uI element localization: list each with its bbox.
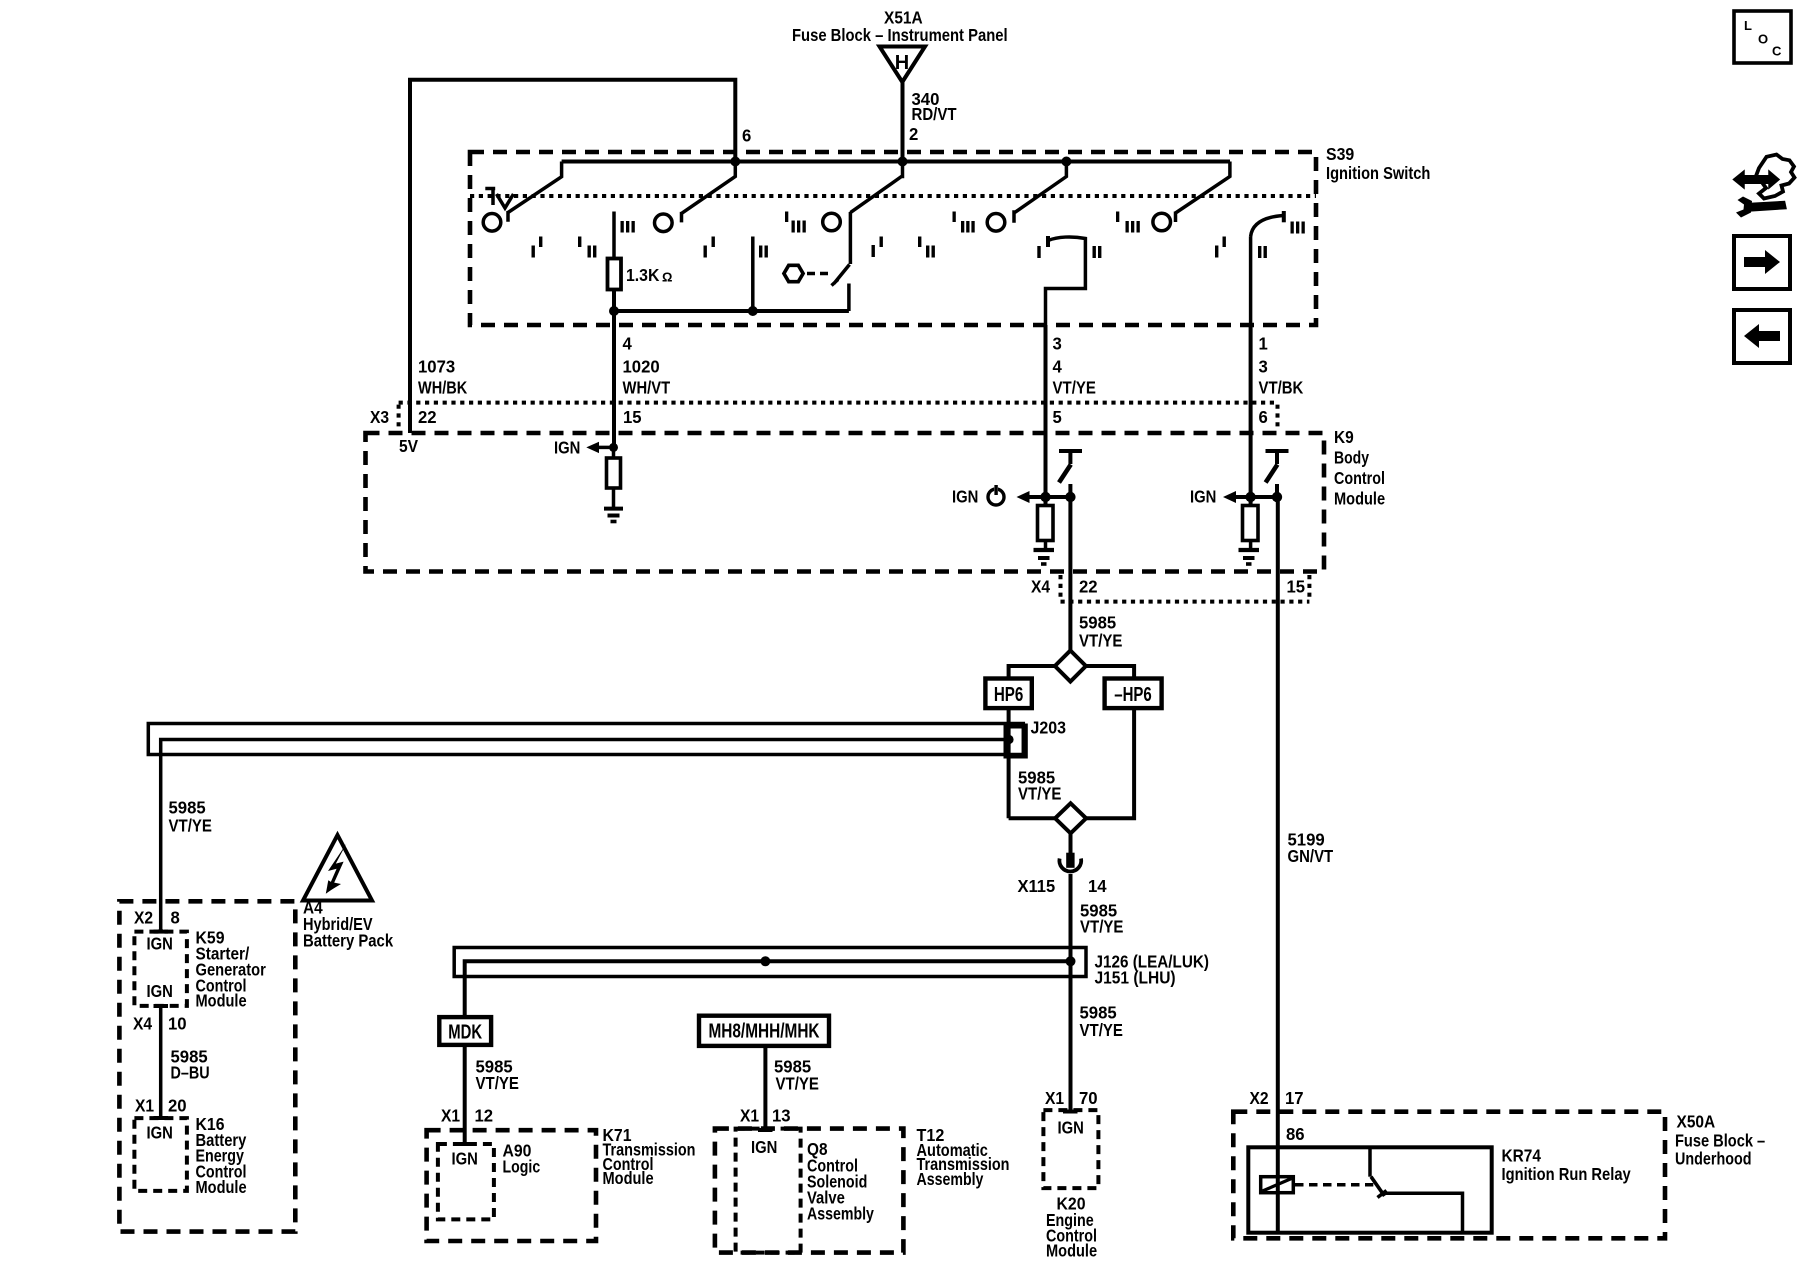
svg-text:X1: X1 [135,1096,154,1116]
svg-text:Module: Module [1046,1241,1097,1261]
svg-text:MH8/MHH/MHK: MH8/MHH/MHK [708,1021,820,1043]
node IGN right junction2 [1272,492,1282,502]
label T12 Automatic Transmission Assembly [917,1125,1010,1189]
dashed link hexagon to blade [807,272,833,276]
svg-text:Assembly: Assembly [807,1204,874,1224]
S39 inner dotted detent line [470,194,1316,198]
svg-text:L: L [1744,18,1752,33]
svg-text:5: 5 [1053,407,1063,427]
ground BCM left [604,488,623,522]
svg-text:–HP6: –HP6 [1114,684,1152,706]
node run-junction1 [1040,492,1050,502]
wire BCM out left (to X4 22) [1068,497,1072,651]
svg-text:IGN: IGN [952,487,978,507]
svg-text:1073: 1073 [418,357,455,377]
svg-text:IGN: IGN [147,1123,173,1143]
wafer6 mark III [1291,222,1305,234]
svg-text:X2: X2 [1250,1088,1269,1108]
wire X115 to J126 bus [1069,874,1073,961]
wafer2 contact circle [655,214,673,232]
wire 4 VT/YE (S39 pin 3 to BCM 5) [1044,325,1048,497]
svg-text:Body: Body [1334,448,1369,468]
ground BCM right [1239,541,1260,565]
resistor BCM right [1243,497,1259,541]
svg-text:X2: X2 [134,908,153,928]
label wire 5985 VT/YE (K20 leg) [1080,1003,1123,1041]
wafer4 mark I [1037,246,1040,258]
svg-text:Ignition Switch: Ignition Switch [1326,163,1430,183]
wafer5 contact circle [1153,213,1171,231]
fuse block X51A label [792,8,1008,46]
svg-text:70: 70 [1079,1088,1098,1108]
wafer1 mark II [578,237,596,258]
svg-text:X4: X4 [1031,577,1050,597]
wire 1020 WH/VT (S39 pin 4 to BCM 15) [612,311,616,447]
label J126 J151 [1095,952,1210,988]
svg-text:Module: Module [196,1177,247,1197]
label wire 5985 VT/YE (J203 leg) [1018,768,1061,804]
wire coil feed [1276,1147,1280,1232]
label wire 5985 D-BU [171,1047,210,1083]
wafer2 mark I [704,237,715,258]
node rail-waferII [748,306,758,316]
label X4 pin 10 [133,1014,187,1034]
svg-text:X1: X1 [740,1106,759,1126]
svg-text:VT/YE: VT/YE [1079,631,1122,651]
wafer4 mark II [1093,246,1102,258]
arrow IGN run [1017,491,1030,503]
wire MDK to A90 [463,1045,467,1144]
svg-text:IGN: IGN [554,438,580,458]
svg-text:Ω: Ω [662,270,672,285]
wire IGN run line [1029,495,1070,499]
svg-text:Module: Module [196,991,247,1011]
svg-text:20: 20 [168,1096,187,1116]
svg-text:RD/VT: RD/VT [912,104,957,124]
label wire 1073 WH/BK [418,357,467,398]
arrow IGN right [1223,491,1236,503]
label X115 and pin 14 [1018,876,1107,896]
bus J203 inner wire [161,740,1009,930]
svg-text:Fuse Block – Instrument Panel: Fuse Block – Instrument Panel [792,25,1008,45]
svg-text:X4: X4 [133,1014,152,1034]
label wire 5985 VT/YE upper [1079,613,1122,651]
icon service-info (arrows and wrench) [1734,155,1795,218]
svg-text:X50A: X50A [1677,1112,1716,1132]
svg-text:4: 4 [623,334,633,354]
svg-text:Module: Module [603,1168,654,1188]
wire BCM out right (to X4 15) [1276,497,1280,1147]
wire 1073 upper run (BCM 22 up, across, down to S39 pin 6) [410,80,735,433]
wafer6 arm tick [1282,211,1286,222]
svg-text:14: 14 [1088,876,1107,896]
label X2 pin 8 [134,908,180,928]
wire diamond to -HP6 [1086,666,1134,679]
bus J126 inner wire [465,961,1071,1017]
relay contact output [1385,1193,1463,1232]
wafer1 mark I [532,237,543,258]
node J203 [1004,735,1013,744]
label 1.3K ohm [626,265,672,285]
relay KR74 box [1248,1147,1491,1232]
svg-text:22: 22 [418,407,437,427]
node IGN left [609,443,618,452]
icon LOC box [1734,11,1791,63]
svg-text:22: 22 [1079,577,1098,597]
svg-text:15: 15 [623,407,642,427]
wire tick Q8 [758,1128,773,1132]
wire resistor to bottom rail [612,290,616,312]
label K71 Transmission Control Module [603,1125,696,1188]
svg-text:17: 17 [1285,1088,1304,1108]
fuse block X50A box [1233,1112,1665,1239]
svg-text:X3: X3 [370,407,389,427]
svg-text:O: O [1758,32,1768,47]
svg-text:WH/BK: WH/BK [418,378,467,398]
label wire 5985 VT/YE (MH8 leg) [774,1057,819,1094]
wire K59 to K16 [154,1006,169,1118]
svg-text:X1: X1 [441,1106,460,1126]
label X2 pin 17 [1250,1088,1304,1108]
wafer1 contact circle [483,214,501,232]
node run-junction2 [1065,492,1075,502]
svg-text:H: H [895,52,909,74]
svg-text:VT/YE: VT/YE [1080,1020,1123,1040]
svg-text:4: 4 [1053,357,1063,377]
svg-text:VT/YE: VT/YE [1080,917,1123,937]
wafer4 switch arm [1014,162,1066,223]
wire -HP6 down to lower diamond [1086,708,1134,818]
svg-text:IGN: IGN [1190,487,1216,507]
power symbol [988,485,1004,506]
label A90 Logic [503,1141,541,1177]
node IGN right junction1 [1245,492,1255,502]
wafer5 mark I [1215,237,1226,258]
connector MDK box [439,1017,491,1045]
wire into K59 [154,929,169,932]
splice diamond upper [1055,651,1086,682]
svg-text:Assembly: Assembly [917,1169,984,1189]
label wire 5985 VT/YE (X115 leg) [1080,901,1123,937]
wafer3 mark III [785,212,806,233]
svg-text:KR74: KR74 [1502,1146,1542,1166]
svg-text:Module: Module [1334,489,1385,509]
resistor R 1.3K [608,259,622,290]
svg-text:HP6: HP6 [994,684,1024,706]
wire 3 VT/BK (S39 pin 1 to BCM 6) [1249,325,1253,497]
fuse -HP6 box [1105,679,1162,709]
label X1 pin 13 [740,1106,791,1126]
wafer6 mark II [1258,246,1267,258]
svg-text:1.3K: 1.3K [626,265,660,285]
svg-text:5985: 5985 [1079,613,1116,633]
resistor BCM run [1038,497,1054,541]
connector J203 [1006,726,1025,756]
svg-text:VT/BK: VT/BK [1259,378,1304,398]
wafer5 mark III [1116,212,1140,233]
label K20 Engine Control Module [1046,1194,1097,1261]
wafer2 switch arm [682,162,736,223]
svg-text:IGN: IGN [147,934,173,954]
wafer4 contact circle [987,214,1005,232]
relay contact common [1368,1147,1372,1176]
node bus-pin2 [898,157,908,167]
connector X3 strip [399,403,1278,430]
svg-text:S39: S39 [1326,144,1354,164]
label X50A Fuse Block Underhood [1675,1112,1765,1169]
wafer2 mark III [621,221,635,233]
svg-text:1020: 1020 [623,357,660,377]
node J126-K20 [1066,956,1076,966]
svg-text:12: 12 [475,1106,494,1126]
node bus-pin6 [730,157,740,167]
wafer4 output wire (pin 3) [1046,237,1086,325]
label wire 1020 WH/VT [623,357,671,398]
relay coil [1261,1177,1294,1193]
label K16 Battery Energy Control Module [196,1114,247,1197]
fuse HP6 box [985,679,1031,709]
module K16 box [134,1118,187,1191]
label K59 Starter/Generator Control Module [196,928,266,1011]
svg-text:Fuse Block –: Fuse Block – [1675,1131,1765,1151]
svg-text:13: 13 [772,1106,791,1126]
S39 bottom rail [614,309,849,313]
fuse symbol H triangle [880,47,926,83]
wafer6 curved arm [1251,216,1283,237]
wafer3 switch arm [850,162,902,265]
relay contact blade [1371,1177,1387,1198]
svg-text:MDK: MDK [448,1022,482,1044]
wire J203 leg to lower diamond [1009,816,1056,820]
module Q8 box [736,1129,801,1253]
label K9 Body Control Module [1334,427,1385,509]
resistor BCM left [607,447,621,488]
svg-text:IGN: IGN [1058,1118,1084,1138]
icon arrow-right box [1734,236,1790,289]
label KR74 Ignition Run Relay [1502,1146,1631,1185]
node J126-MH8 [760,956,770,966]
BCM K9 box [366,433,1325,572]
bus J203 rail [148,724,1023,755]
label wire 5985 VT/YE (MDK leg) [476,1057,519,1094]
module K20 box [1043,1110,1098,1188]
connector X115 symbol [1059,853,1081,872]
S39 supply bus wire [562,160,1230,164]
svg-text:GN/VT: GN/VT [1288,846,1334,866]
wafer2 mark II [759,246,768,258]
splice diamond lower [1055,803,1086,833]
svg-text:10: 10 [168,1014,187,1034]
svg-text:D–BU: D–BU [171,1063,210,1083]
svg-text:VT/YE: VT/YE [169,816,212,836]
key symbol [485,187,513,208]
svg-text:K9: K9 [1334,427,1354,447]
svg-text:Control: Control [1334,468,1385,488]
battery pack A4 box [119,901,295,1231]
module K59 box [134,932,187,1006]
wire IGN left arrow line [599,446,614,450]
svg-text:3: 3 [1259,357,1269,377]
wafer5 switch arm [1176,162,1230,223]
svg-text:IGN: IGN [452,1149,478,1169]
arrow IGN left [586,442,599,453]
svg-text:86: 86 [1286,1124,1305,1144]
svg-text:15: 15 [1287,577,1306,597]
svg-text:VT/YE: VT/YE [476,1073,519,1093]
BCM input switch right (T-bar and blade) [1266,451,1289,497]
svg-text:VT/YE: VT/YE [776,1074,819,1094]
dashed actuation link [1295,1183,1373,1187]
node rail-resistor [609,306,619,316]
wire HP6 down through J203 [1007,708,1011,818]
wire J126 to K20 [1069,961,1073,1110]
label Q8 Control Solenoid Valve Assembly [807,1139,874,1224]
label X1 pin 20 [135,1096,187,1116]
node bus-wafer4 [1061,157,1071,167]
wafer3 contact circle [823,213,841,231]
svg-text:X1: X1 [1045,1088,1064,1108]
label wire 4 VT/YE [1053,357,1096,398]
svg-text:IGN: IGN [751,1137,777,1157]
ground BCM run [1034,541,1055,565]
label wire 3 VT/BK [1259,357,1304,398]
svg-text:Battery Pack: Battery Pack [303,931,393,951]
wire 340 RD/VT from fuse to ignition switch pin 2 [901,82,905,163]
wafer3 mark I [872,237,883,258]
wafer3 lower blade [832,265,850,286]
label wire 5985 VT/YE left leg [169,798,212,836]
svg-text:Underhood: Underhood [1675,1149,1752,1169]
connector X4 strip [1061,575,1310,602]
BCM input switch left (T-bar and blade) [1059,451,1082,497]
connector MH8 box [699,1016,829,1046]
svg-text:Ignition Run Relay: Ignition Run Relay [1502,1164,1631,1184]
S39 ignition switch box [470,152,1316,325]
svg-text:8: 8 [171,908,181,928]
label wire 340 RD/VT [912,89,957,124]
module A90 box [438,1144,494,1219]
hexagon accessory contact [784,265,803,281]
warning triangle A4 [303,835,372,901]
bus J126/J151 rail [454,948,1086,977]
resistor R 1.3K wire top [612,212,616,259]
wire MH8 to Q8 [763,1046,767,1130]
label X1 pin 70 [1045,1088,1098,1108]
wafer6 output wire (pin 1) [1249,237,1253,326]
svg-text:5985: 5985 [169,798,206,818]
svg-text:Logic: Logic [503,1157,541,1177]
wire IGN right line [1236,495,1278,499]
wafer1 switch arm [508,162,562,222]
svg-text:X115: X115 [1018,876,1056,896]
svg-text:6: 6 [1259,407,1269,427]
wire diamond to HP6 [1009,666,1055,679]
svg-text:6: 6 [742,126,752,146]
svg-text:VT/YE: VT/YE [1018,784,1061,804]
svg-text:3: 3 [1053,334,1063,354]
svg-text:WH/VT: WH/VT [623,378,671,398]
svg-text:J203: J203 [1031,718,1067,738]
label A4 Hybrid/EV Battery Pack [303,898,393,951]
svg-text:5V: 5V [399,436,418,456]
svg-text:1: 1 [1259,334,1269,354]
svg-text:VT/YE: VT/YE [1053,378,1096,398]
wafer3 lower fixed contact [847,284,851,312]
svg-text:IGN: IGN [147,981,173,1001]
svg-text:2: 2 [909,124,919,144]
module T12 box [715,1129,904,1253]
wafer4 run contact tick [1046,236,1050,247]
module K71 box [427,1130,596,1241]
label X1 pin 12 [441,1106,493,1126]
label wire 5199 GN/VT [1288,830,1334,867]
svg-text:C: C [1772,44,1782,59]
svg-text:J151 (LHU): J151 (LHU) [1095,968,1176,988]
wafer3 mark II [918,237,935,258]
wire tick A90 [458,1142,473,1146]
wafer2 position II wire [751,237,755,312]
wire lower diamond to X115 [1069,833,1073,853]
icon arrow-left box [1734,310,1790,363]
wire tick K20 [1063,1110,1078,1114]
wafer4 mark III [953,212,975,233]
label S39 Ignition Switch [1326,144,1430,183]
